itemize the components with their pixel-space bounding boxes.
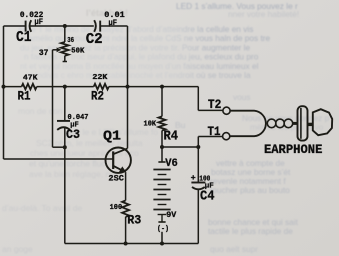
wire T1 node row bbox=[162, 146, 198, 148]
wire battery to bottom rail bbox=[161, 232, 163, 244]
svg-text:10K: 10K bbox=[144, 120, 157, 128]
junction collector node bbox=[126, 85, 130, 89]
svg-text:toucher plus au bouto: toucher plus au bouto bbox=[210, 185, 290, 195]
terminal T1 bbox=[223, 133, 230, 140]
junction R4 top bbox=[160, 85, 164, 89]
wire C3 upper lead bbox=[64, 87, 66, 121]
wire mid rail center bbox=[37, 86, 94, 88]
wire wiper to C3 node bbox=[53, 146, 65, 148]
junction node B bbox=[63, 145, 67, 149]
svg-text:36: 36 bbox=[67, 37, 74, 45]
svg-text:quo aelt supr: quo aelt supr bbox=[210, 244, 258, 254]
svg-text:T2: T2 bbox=[208, 98, 222, 112]
svg-text:R3: R3 bbox=[127, 212, 141, 227]
earphone ear tip bbox=[308, 123, 314, 126]
svg-text:C4: C4 bbox=[200, 189, 215, 204]
resistor R2 22K bbox=[94, 84, 109, 90]
wire C3 lower lead to bottom rail bbox=[64, 127, 66, 243]
wire C4 upper lead bbox=[197, 147, 199, 183]
wire collector column bbox=[127, 26, 129, 148]
svg-text:C2: C2 bbox=[86, 32, 103, 48]
svg-text:50K: 50K bbox=[71, 47, 85, 55]
junction battery bottom bbox=[160, 242, 164, 246]
svg-text:V6: V6 bbox=[165, 158, 178, 170]
terminal T2 bbox=[223, 107, 230, 114]
svg-text:et qu’une torche fluo: et qu’une torche fluo bbox=[29, 159, 106, 169]
earphone cord coil bbox=[267, 119, 276, 128]
svg-text:mon de con: mon de con bbox=[18, 106, 63, 116]
transistor Q1 2SC NPN bbox=[106, 148, 131, 173]
wire R4 bottom lead bbox=[161, 131, 163, 148]
junction R4 bottom node bbox=[160, 145, 164, 149]
junction C3 top bbox=[63, 85, 67, 89]
battery V6 9V bbox=[153, 147, 170, 222]
svg-text:nner votre habileté!: nner votre habileté! bbox=[228, 9, 299, 19]
svg-text:(-): (-) bbox=[157, 226, 169, 234]
wire T1 lead bbox=[198, 136, 222, 138]
svg-text:47K: 47K bbox=[23, 75, 38, 83]
junction T1 node bbox=[196, 145, 200, 149]
wire emitter to R3 bbox=[125, 173, 127, 201]
earphone cord loop bbox=[230, 111, 266, 137]
svg-text:+: + bbox=[191, 173, 196, 183]
capacitor C2 bbox=[94, 20, 100, 32]
capacitor C4 100uF electrolytic bbox=[191, 183, 205, 190]
wire mid rail left bbox=[4, 86, 22, 88]
wire left column bbox=[3, 26, 5, 159]
svg-text:37: 37 bbox=[39, 49, 49, 58]
capacitor C3 0.047uF bbox=[57, 121, 70, 130]
resistor R4 10K bbox=[159, 116, 166, 130]
svg-text:22K: 22K bbox=[92, 74, 108, 82]
wire top rail right bbox=[100, 25, 127, 27]
resistor R3 100 bbox=[122, 201, 129, 217]
svg-text:C3: C3 bbox=[66, 127, 80, 142]
svg-text:2SC: 2SC bbox=[108, 174, 124, 184]
svg-text:vous: vous bbox=[233, 92, 251, 102]
junction R3 bottom bbox=[124, 242, 128, 246]
wire base line bbox=[4, 158, 114, 160]
wire pot top lead bbox=[64, 26, 66, 42]
wire R3 to bottom rail bbox=[125, 217, 127, 244]
svg-text:T1: T1 bbox=[208, 125, 221, 139]
wire T2 drop bbox=[197, 87, 199, 111]
svg-text:100: 100 bbox=[110, 204, 123, 212]
svg-text:R2: R2 bbox=[91, 90, 104, 104]
capacitor C1 bbox=[26, 20, 32, 32]
svg-text:R1: R1 bbox=[18, 90, 31, 104]
svg-text:EARPHONE: EARPHONE bbox=[264, 143, 323, 157]
svg-text:R4: R4 bbox=[164, 129, 179, 144]
svg-text:Q1: Q1 bbox=[103, 129, 121, 144]
junction node A bbox=[2, 85, 6, 89]
resistor R1 47K bbox=[22, 84, 37, 90]
junction pot top bbox=[63, 24, 67, 28]
wire top rail left bbox=[4, 25, 26, 27]
svg-text:ave la bien réglage, ne: ave la bien réglage, ne bbox=[29, 169, 115, 179]
svg-text:an goge: an goge bbox=[2, 244, 33, 254]
potentiometer 50K (pos 36/37) bbox=[61, 42, 69, 56]
earphone driver disc bbox=[293, 122, 298, 125]
wire mid rail right bbox=[109, 86, 199, 88]
svg-text:9V: 9V bbox=[166, 211, 176, 220]
wire bottom rail bbox=[65, 243, 199, 245]
svg-text:d’au-delà. To avail de: d’au-delà. To avail de bbox=[2, 203, 82, 213]
wire C4 lower lead to bottom rail bbox=[197, 189, 199, 243]
svg-text:et indivis c ehro ment ca: et indivis c ehro ment cable inoché et l… bbox=[26, 70, 251, 80]
wire top rail middle bbox=[30, 25, 94, 27]
wire wiper column bbox=[52, 50, 54, 147]
wire T2 lead bbox=[198, 109, 223, 111]
wire R4 top lead bbox=[161, 87, 163, 117]
wire T1 drop bbox=[197, 137, 199, 148]
svg-text:tactile le plus rapide de: tactile le plus rapide de bbox=[208, 226, 293, 236]
svg-text:C1: C1 bbox=[16, 30, 32, 46]
wiper arrow pin 37 bbox=[53, 49, 58, 51]
